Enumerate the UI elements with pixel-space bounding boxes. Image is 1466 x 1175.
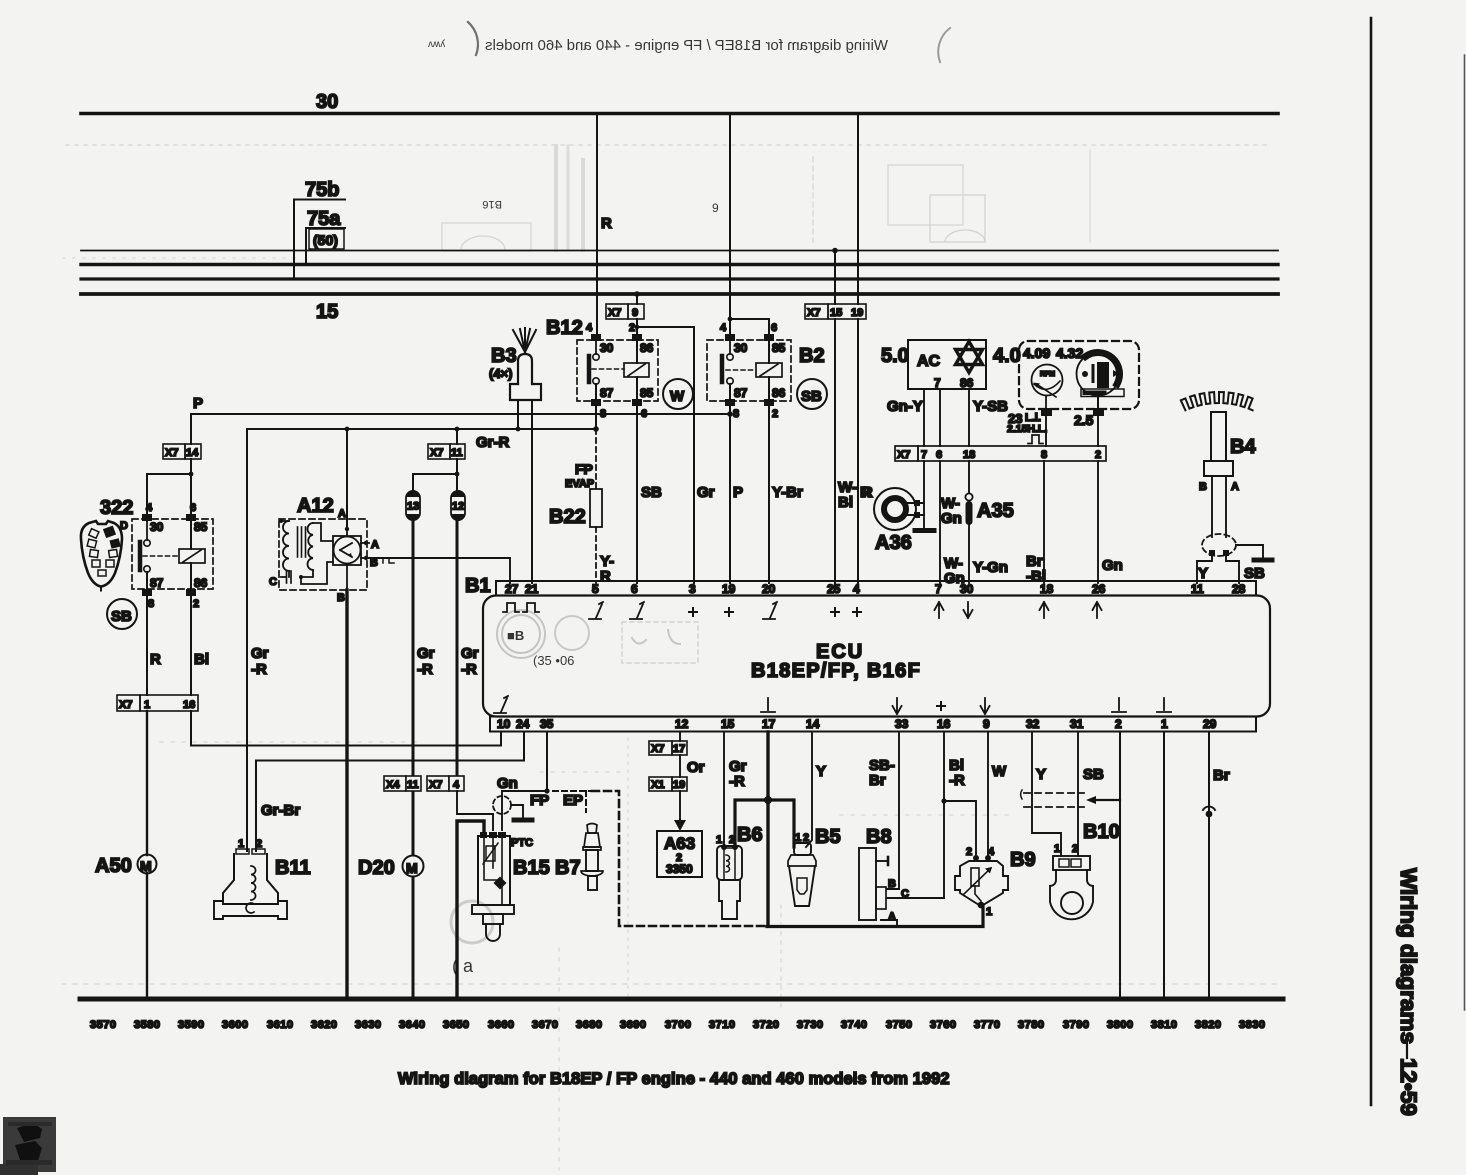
- svg-text:FP: FP: [575, 461, 593, 477]
- junction P line: [727, 411, 733, 417]
- svg-text:3750: 3750: [886, 1019, 912, 1031]
- branch to B5 pin1: [768, 800, 794, 847]
- connector X7|17: [649, 741, 687, 755]
- svg-text:18: 18: [963, 449, 975, 461]
- svg-text:26: 26: [1092, 582, 1106, 596]
- pin 4: [142, 514, 152, 521]
- svg-text:X7: X7: [430, 447, 443, 459]
- svg-text:(35 •06: (35 •06: [533, 653, 574, 668]
- svg-text:Bl: Bl: [838, 494, 853, 511]
- relay B2: [707, 322, 825, 420]
- svg-text:30: 30: [734, 341, 748, 355]
- pin 87/8: [591, 399, 601, 406]
- switch under 5: [589, 602, 603, 619]
- svg-text:3670: 3670: [532, 1019, 558, 1031]
- ECU pin29 wire (Br) to bus: [1208, 732, 1210, 999]
- svg-text:3800: 3800: [1107, 1019, 1133, 1031]
- svg-text:C: C: [269, 576, 277, 588]
- wire ECU33 (SB-Br) to B8 pin B: [887, 732, 899, 889]
- svg-text:B12: B12: [546, 317, 583, 339]
- svg-text:2: 2: [193, 598, 199, 610]
- wire B12 pin6 to ECU pin 6 (SB): [636, 406, 638, 583]
- wire to A36: [923, 461, 925, 516]
- svg-text:FP: FP: [530, 792, 549, 809]
- svg-text:3710: 3710: [709, 1019, 735, 1031]
- svg-text:R: R: [601, 215, 612, 232]
- svg-text:M: M: [406, 860, 418, 876]
- svg-text:1: 1: [716, 834, 722, 846]
- branch to B6 pin2: [735, 800, 768, 846]
- svg-text:14: 14: [186, 447, 199, 459]
- page border right: [1370, 18, 1373, 1105]
- svg-text:3680: 3680: [576, 1019, 602, 1031]
- svg-text:322: 322: [100, 497, 133, 519]
- plus under 16: [937, 702, 945, 710]
- svg-text:1: 1: [1054, 843, 1060, 855]
- switch under 6: [630, 602, 644, 619]
- inline connector dashes on B10 wires: [1021, 790, 1084, 807]
- svg-text:(4×): (4×): [489, 366, 512, 381]
- ECU pin24 wire to B11 pin2 (Gr-Br): [256, 732, 524, 851]
- svg-text:87: 87: [734, 386, 748, 400]
- svg-text:4: 4: [988, 846, 995, 858]
- wire ECU9 (W) to B9.4: [987, 732, 989, 856]
- node from B12 pin2 wire to ECU pin 3: [637, 326, 694, 328]
- wire X7 pin19 down to ECU pin 4 (R): [857, 319, 859, 583]
- ECU pin12 wire to A63: [679, 732, 681, 741]
- pin 4: [725, 334, 735, 341]
- resistor B22 in dashed wire to ECU pin 5: [595, 429, 597, 489]
- svg-text:35: 35: [540, 717, 554, 731]
- svg-text:3720: 3720: [753, 1019, 779, 1031]
- connector X1|19: [649, 777, 687, 791]
- svg-text:X7: X7: [119, 699, 132, 711]
- svg-text:20: 20: [762, 582, 776, 596]
- svg-text:2: 2: [256, 838, 262, 850]
- svg-text:Y-Gn: Y-Gn: [973, 559, 1008, 576]
- svg-text:X1: X1: [651, 779, 664, 791]
- svg-text:SB: SB: [801, 388, 822, 405]
- svg-text:16: 16: [183, 699, 195, 711]
- svg-text:B15: B15: [513, 857, 550, 879]
- connector X4|11: [384, 776, 421, 791]
- svg-text:A35: A35: [977, 500, 1014, 522]
- wire: B11 pin1 riser: [246, 429, 248, 851]
- heavy wire A12 B-pin down to ground bus: [345, 590, 348, 999]
- svg-text:3590: 3590: [178, 1019, 204, 1031]
- wire B-pulse: A12 to ECU pin 27: [369, 558, 510, 583]
- svg-text:1: 1: [238, 838, 244, 850]
- svg-text:1: 1: [144, 699, 150, 711]
- heavy ground wire to B15 left pin: [457, 821, 484, 999]
- svg-text:86: 86: [640, 341, 654, 355]
- switch contact: [595, 341, 597, 354]
- svg-text:4.32: 4.32: [1056, 345, 1083, 361]
- svg-text:ʌʍʎ: ʌʍʎ: [428, 39, 445, 50]
- svg-text:(50): (50): [313, 232, 338, 248]
- svg-text:17: 17: [762, 717, 776, 731]
- svg-text:4.0: 4.0: [993, 345, 1021, 367]
- ground under 2: [1112, 698, 1126, 712]
- svg-text:87: 87: [150, 576, 164, 590]
- svg-text:4: 4: [453, 779, 460, 791]
- plus under 3: [689, 608, 697, 616]
- dashed branch to solenoid rail: [592, 791, 767, 926]
- wire P: horizontal from 322/X7|14 to B2 pin8 wire: [191, 414, 730, 444]
- svg-text:A36: A36: [875, 532, 912, 554]
- pin 86/2: [764, 399, 774, 406]
- arrow wire into A63: [679, 791, 681, 822]
- svg-text:Y-Br: Y-Br: [772, 484, 803, 501]
- svg-text:Gn-Y: Gn-Y: [887, 398, 923, 415]
- diagnostics unit A63: [657, 831, 702, 877]
- wire A50: X7|1 down to motor and ground bus: [146, 711, 148, 855]
- svg-text:21: 21: [525, 582, 539, 596]
- indicator SB (322): [107, 599, 137, 629]
- svg-text:3690: 3690: [620, 1019, 646, 1031]
- svg-text:2: 2: [1115, 717, 1122, 731]
- ECU pin2 ground wire to bus: [1119, 732, 1121, 999]
- svg-text:A: A: [888, 911, 896, 923]
- wires AC/cluster to X7 strip: [923, 389, 925, 446]
- svg-text:A: A: [338, 508, 346, 520]
- relay 322: [132, 502, 213, 610]
- svg-text:6: 6: [936, 449, 942, 461]
- svg-text:Gn: Gn: [497, 775, 518, 792]
- svg-text:Wiring diagram for B18EP / FP: Wiring diagram for B18EP / FP engine - 4…: [485, 37, 888, 54]
- svg-text:Wiring diagram for B18EP / FP: Wiring diagram for B18EP / FP engine - 4…: [398, 1070, 950, 1088]
- svg-text:3700: 3700: [665, 1019, 691, 1031]
- pin 86/2: [186, 589, 196, 596]
- idle valve B11: [214, 849, 287, 919]
- svg-text:B7: B7: [555, 857, 581, 879]
- svg-text:25: 25: [827, 582, 841, 596]
- svg-text:3780: 3780: [1018, 1019, 1044, 1031]
- junction on line 15: [634, 291, 640, 297]
- shield drain with arrow to ground wire: [1093, 799, 1120, 801]
- ECU internal symbols top row: [503, 602, 1102, 619]
- pressure sensor B9: [955, 855, 1008, 908]
- injector B5: [788, 843, 816, 906]
- svg-text:RPM: RPM: [1040, 371, 1055, 378]
- plus plus under 25 4: [831, 608, 839, 616]
- primary coil: [283, 521, 289, 571]
- wire B2 pin8 to ECU pin 19 (P): [729, 406, 731, 583]
- secondary coil: [308, 523, 313, 570]
- svg-text:B11: B11: [275, 857, 311, 879]
- svg-text:Br: Br: [869, 772, 886, 789]
- svg-text:Wiring diagrams: Wiring diagrams: [1396, 868, 1421, 1044]
- heavy wire fuse12 to X7|4: [456, 520, 459, 776]
- bottom pin strip: [490, 717, 1256, 732]
- svg-text:11: 11: [1191, 582, 1204, 596]
- sensor body: [1204, 412, 1233, 537]
- faint dashed bleed lines lower area: [62, 258, 1280, 1170]
- svg-text:2: 2: [1095, 449, 1101, 461]
- connector X7|14: [163, 444, 201, 459]
- svg-text:Gr-Br: Gr-Br: [261, 802, 300, 819]
- svg-text:X7: X7: [651, 743, 664, 755]
- throttle potentiometer B8: [859, 848, 897, 927]
- svg-text:8: 8: [1041, 449, 1047, 461]
- svg-text:24: 24: [516, 717, 530, 731]
- wire X7|4 to B15 middle pin: [457, 791, 493, 830]
- connector X7|11: [428, 444, 465, 459]
- svg-text:32: 32: [1026, 717, 1040, 731]
- svg-text:Or: Or: [687, 759, 705, 776]
- svg-text:9: 9: [632, 307, 638, 319]
- wire Bl to ECU pin10 line: [191, 711, 501, 746]
- svg-text:B: B: [337, 592, 345, 604]
- wire from Gr-R node into X7|11 and split to fuses: [456, 429, 458, 444]
- svg-text:2: 2: [729, 834, 735, 846]
- svg-text:X7: X7: [165, 447, 178, 459]
- connector X7|4: [427, 776, 464, 791]
- svg-text:AC: AC: [917, 353, 941, 370]
- svg-text:75b: 75b: [305, 179, 339, 201]
- svg-text:B: B: [1199, 481, 1207, 493]
- wire X7|9 to B12 pin 2: [636, 319, 638, 335]
- svg-text:A63: A63: [664, 834, 695, 853]
- svg-text:33: 33: [895, 717, 909, 731]
- wire B12 pin8 to Gr-R node: [595, 406, 597, 429]
- ghost shapes under bus area: [66, 145, 1270, 251]
- dashed drop to B7: [585, 791, 587, 812]
- svg-text:W: W: [670, 388, 685, 405]
- svg-text:12: 12: [452, 501, 464, 513]
- svg-text:19: 19: [722, 582, 736, 596]
- svg-text:30: 30: [600, 341, 614, 355]
- plus under 19: [725, 608, 733, 616]
- pin 2: [632, 334, 642, 341]
- ECU internal symbols bottom row: [494, 696, 1171, 714]
- svg-text:D20: D20: [358, 857, 395, 879]
- arrow down under 33: [893, 698, 902, 714]
- pin 87/8: [725, 399, 735, 406]
- svg-text:4.09: 4.09: [1023, 345, 1050, 361]
- pin 6: [764, 334, 774, 341]
- svg-text:16: 16: [937, 717, 951, 731]
- ECU pin15 wire to B6 pin1: [723, 732, 725, 846]
- distance scale labels: [90, 1019, 1265, 1031]
- svg-text:-R: -R: [949, 772, 965, 789]
- switch contact: [729, 341, 731, 354]
- svg-text:SB: SB: [1244, 565, 1265, 582]
- svg-text:29: 29: [1203, 717, 1217, 731]
- svg-text:5: 5: [592, 582, 599, 596]
- svg-text:R: R: [860, 484, 871, 501]
- svg-text:2.5: 2.5: [1074, 412, 1094, 428]
- svg-text:85: 85: [194, 520, 208, 534]
- wire W-Gn to ECU 7: [939, 461, 941, 583]
- svg-text:86: 86: [960, 376, 974, 390]
- purge valve B7 with dashed FP/EP lines: [553, 790, 592, 792]
- svg-text:4: 4: [853, 582, 860, 596]
- svg-text:SB: SB: [1083, 766, 1104, 783]
- svg-text:75a: 75a: [307, 208, 341, 230]
- bottom pin numbers: [497, 717, 1217, 731]
- coil: [179, 549, 205, 563]
- arrow up under 26: [1093, 602, 1102, 618]
- fuel gauge: [1077, 353, 1125, 410]
- ground under 17: [761, 698, 775, 712]
- svg-text:85: 85: [772, 341, 786, 355]
- svg-text:3760: 3760: [930, 1019, 956, 1031]
- svg-text:Gn: Gn: [941, 510, 962, 527]
- wire R from line 30 to B12 pin 4: [596, 114, 598, 336]
- connector X7|1..16: [117, 695, 198, 711]
- svg-text:X7: X7: [429, 779, 442, 791]
- main box: [483, 596, 1270, 717]
- svg-text:Y: Y: [816, 763, 826, 780]
- svg-text:B10: B10: [1083, 821, 1120, 843]
- bus line 75a: [81, 263, 1278, 266]
- svg-text:1: 1: [795, 832, 801, 844]
- svg-text:SB: SB: [641, 484, 662, 501]
- svg-text:14: 14: [806, 717, 820, 731]
- svg-text:10: 10: [497, 717, 511, 731]
- instrument cluster dashed box: [1019, 341, 1139, 409]
- svg-text:7: 7: [921, 449, 927, 461]
- svg-text:A12: A12: [297, 495, 334, 517]
- svg-text:30: 30: [150, 520, 164, 534]
- svg-text:3820: 3820: [1195, 1019, 1221, 1031]
- wire R: 322 pin8 down through X7|1 to A50: [146, 596, 148, 695]
- svg-text:B1: B1: [465, 575, 491, 597]
- svg-text:PTC: PTC: [511, 837, 533, 849]
- svg-text:3620: 3620: [311, 1019, 337, 1031]
- svg-text:W: W: [992, 763, 1007, 780]
- svg-text:3580: 3580: [134, 1019, 160, 1031]
- svg-text:87: 87: [600, 386, 614, 400]
- ECU pin1 ground wire to bus: [1163, 732, 1165, 999]
- svg-text:3630: 3630: [355, 1019, 381, 1031]
- svg-text:Bl: Bl: [194, 651, 209, 668]
- junction on line (50): [832, 248, 838, 254]
- svg-text:28: 28: [1232, 582, 1246, 596]
- connector X7|9: [606, 304, 644, 319]
- svg-text:X7: X7: [608, 307, 621, 319]
- svg-text:8: 8: [148, 598, 154, 610]
- svg-text:17: 17: [673, 743, 685, 755]
- coil: [756, 363, 782, 377]
- wire Gr-R horizontal (ECU5 node line): [247, 428, 596, 430]
- svg-text:-R: -R: [729, 773, 745, 790]
- svg-text:1: 1: [1161, 717, 1168, 731]
- ECU pin35 wire to FP node: [502, 732, 547, 791]
- svg-text:1: 1: [986, 906, 992, 918]
- svg-text:5.0: 5.0: [881, 345, 909, 367]
- svg-text:B16: B16: [482, 198, 502, 210]
- transistor block: [333, 529, 369, 590]
- svg-text:3570: 3570: [90, 1019, 116, 1031]
- bus line 75b: [81, 277, 1278, 280]
- svg-text:3740: 3740: [841, 1019, 867, 1031]
- wire A12 collector riser from Gr-R line: [346, 429, 348, 529]
- ground stub at Gn connector: [511, 805, 523, 818]
- bus line 15: [81, 292, 1278, 296]
- ECU pin17 heavy wire with junction: [766, 732, 769, 926]
- svg-text:3350: 3350: [666, 862, 693, 876]
- svg-text:2: 2: [966, 846, 972, 858]
- pin A stub right: [361, 542, 369, 544]
- svg-text:B3: B3: [491, 345, 517, 367]
- coil: [624, 363, 649, 377]
- tachometer: [1032, 365, 1063, 410]
- svg-text:6: 6: [771, 322, 777, 334]
- top pin strip: [496, 581, 1256, 596]
- vapour valve B7: [581, 824, 603, 891]
- svg-text:( a: ( a: [452, 956, 474, 976]
- svg-text:2: 2: [1072, 843, 1078, 855]
- svg-text:EP: EP: [563, 792, 583, 809]
- wire Y-Gn through A35 to ECU 30: [968, 461, 970, 583]
- arrow up under 7: [935, 602, 944, 618]
- wire Gn to ECU 26: [1097, 461, 1099, 583]
- lamp W: [663, 379, 693, 409]
- svg-text:Y: Y: [1036, 766, 1046, 783]
- svg-text:B9: B9: [1010, 849, 1036, 871]
- pin 6: [186, 514, 196, 521]
- wire Bl: 322 pin2 down through X7|16: [190, 596, 192, 695]
- indicator SB (near B2): [797, 379, 827, 409]
- heavy solenoid rail to B9 pin1: [767, 906, 983, 927]
- fuse 13: [406, 490, 420, 521]
- arrow up under 18: [1040, 602, 1049, 618]
- alternator pickup A36: [874, 488, 924, 530]
- arrow down under 30: [964, 602, 973, 618]
- heavy wire fuse13 to D20: [412, 520, 415, 856]
- svg-text:Gr: Gr: [697, 484, 715, 501]
- svg-text:3: 3: [689, 582, 696, 596]
- svg-text:Gn: Gn: [1102, 557, 1123, 574]
- svg-text:31: 31: [1070, 717, 1084, 731]
- core: [297, 527, 299, 557]
- windings top connection to transistor: [313, 523, 333, 541]
- svg-text:B4: B4: [1230, 436, 1256, 458]
- connector X7|15|19: [805, 304, 866, 319]
- ground bus bottom: [80, 997, 1283, 1002]
- svg-text:2.15H.L.: 2.15H.L.: [1007, 423, 1047, 435]
- svg-text:2: 2: [629, 322, 635, 334]
- arrow down under 9: [981, 698, 990, 714]
- svg-text:6: 6: [190, 502, 196, 514]
- svg-text:B22: B22: [549, 506, 586, 528]
- injector B6: [717, 844, 742, 919]
- svg-text:85: 85: [640, 386, 654, 400]
- pin B stub right: [361, 557, 369, 559]
- svg-text:■B: ■B: [507, 628, 524, 643]
- switch contact: [146, 521, 148, 540]
- svg-text:13: 13: [407, 501, 419, 513]
- svg-text:P: P: [733, 484, 743, 501]
- svg-text:Y: Y: [1198, 565, 1208, 582]
- ghost stamp near B15: [451, 901, 493, 943]
- wire B2 pin2 to ECU pin 20 (Y-Br): [768, 406, 770, 583]
- svg-text:15: 15: [721, 717, 735, 731]
- svg-text:3810: 3810: [1151, 1019, 1177, 1031]
- svg-text:2: 2: [803, 832, 809, 844]
- svg-text:R: R: [150, 651, 161, 668]
- pin 4: [591, 334, 601, 341]
- wire X7|14 down to 322 relay, branch to pin 4: [190, 459, 192, 514]
- svg-text:SB: SB: [111, 608, 132, 625]
- cold start injector B15: [472, 832, 514, 941]
- svg-text:86: 86: [194, 576, 208, 590]
- fuse 12: [451, 490, 465, 521]
- svg-text:X7: X7: [897, 449, 910, 461]
- svg-text:4: 4: [586, 322, 593, 334]
